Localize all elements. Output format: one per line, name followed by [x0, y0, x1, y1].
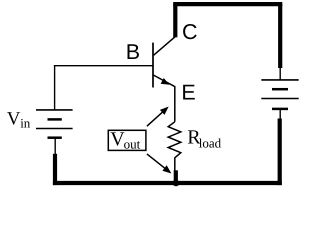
svg-text:E: E	[181, 80, 195, 104]
wire right thick upper	[278, 4, 282, 68]
wire left thick bottom	[53, 154, 57, 185]
transistor Q1 base bar	[152, 43, 154, 88]
wire left vertical (Vin top lead)	[54, 65, 56, 110]
V_out box	[108, 130, 146, 150]
wire bottom thick	[53, 181, 282, 185]
svg-text:out: out	[124, 137, 141, 152]
wire right thick lower	[278, 119, 282, 186]
svg-text:C: C	[182, 20, 198, 44]
wire right battery bottom lead	[279, 109, 281, 120]
transistor Q1 emitter lead	[154, 75, 175, 122]
wire resistor bottom thick stub	[174, 170, 178, 182]
junction dot	[173, 180, 180, 187]
svg-text:B: B	[126, 40, 140, 64]
arrow V_out to resistor top	[147, 110, 165, 126]
transistor Q1 collector lead	[154, 37, 176, 56]
svg-text:load: load	[199, 136, 222, 151]
svg-text:in: in	[20, 116, 31, 131]
wire V_in negative lead	[54, 138, 56, 155]
transistor Q1 emitter arrowhead	[161, 78, 170, 85]
arrow V_out to resistor bottom	[147, 154, 167, 170]
wire collector thick	[173, 4, 177, 37]
wire base (from Vin+ to transistor base)	[54, 65, 153, 67]
wire top thick	[173, 2, 282, 6]
battery V_supply (right)	[261, 80, 298, 109]
wire right battery top lead	[279, 68, 281, 80]
battery V_in	[36, 110, 73, 138]
svg-text:V: V	[7, 109, 21, 130]
resistor R_load	[168, 122, 181, 171]
